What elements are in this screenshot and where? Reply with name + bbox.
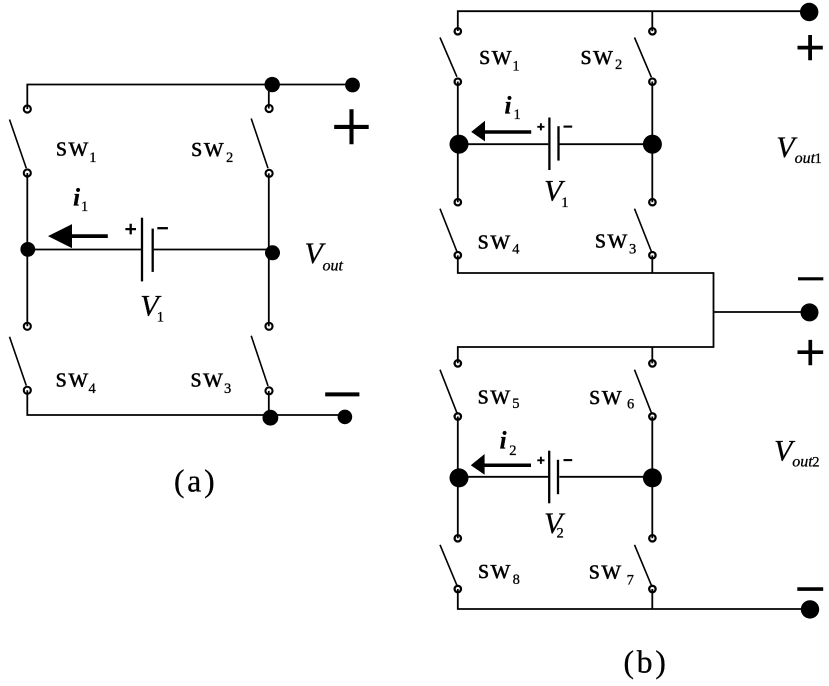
svg-text:7: 7 — [627, 572, 634, 588]
svg-text:6: 6 — [627, 397, 634, 413]
svg-text:sw: sw — [589, 380, 623, 411]
svg-text:2: 2 — [615, 57, 622, 73]
svg-text:8: 8 — [513, 572, 520, 588]
svg-text:(b): (b) — [624, 645, 669, 680]
svg-text:out: out — [795, 150, 816, 167]
svg-text:4: 4 — [89, 381, 97, 397]
svg-text:sw: sw — [478, 224, 512, 255]
svg-text:sw: sw — [479, 40, 513, 71]
svg-text:sw: sw — [589, 555, 623, 586]
svg-text:sw: sw — [595, 224, 629, 255]
svg-text:sw: sw — [56, 132, 90, 163]
svg-text:1: 1 — [512, 58, 519, 74]
svg-text:(a): (a) — [174, 463, 217, 498]
svg-text:i: i — [505, 92, 512, 119]
svg-text:i: i — [73, 184, 80, 211]
svg-text:i: i — [500, 427, 507, 454]
svg-text:2: 2 — [812, 454, 819, 470]
svg-text:3: 3 — [629, 241, 636, 257]
svg-text:sw: sw — [191, 363, 225, 394]
svg-text:2: 2 — [226, 150, 233, 166]
svg-text:1: 1 — [81, 199, 88, 215]
svg-text:5: 5 — [512, 396, 519, 412]
svg-text:1: 1 — [157, 310, 164, 326]
svg-text:out: out — [323, 257, 344, 274]
svg-text:sw: sw — [191, 132, 225, 163]
svg-text:sw: sw — [56, 363, 90, 394]
svg-text:sw: sw — [478, 554, 512, 585]
svg-text:1: 1 — [89, 150, 96, 166]
svg-text:sw: sw — [478, 380, 512, 411]
svg-text:sw: sw — [581, 40, 615, 71]
svg-text:1: 1 — [514, 107, 521, 123]
svg-text:4: 4 — [512, 242, 520, 258]
svg-text:out: out — [792, 453, 813, 470]
svg-text:2: 2 — [509, 443, 516, 459]
svg-text:1: 1 — [815, 151, 822, 167]
svg-text:2: 2 — [557, 526, 564, 542]
svg-text:1: 1 — [561, 195, 568, 211]
svg-text:3: 3 — [224, 381, 231, 397]
